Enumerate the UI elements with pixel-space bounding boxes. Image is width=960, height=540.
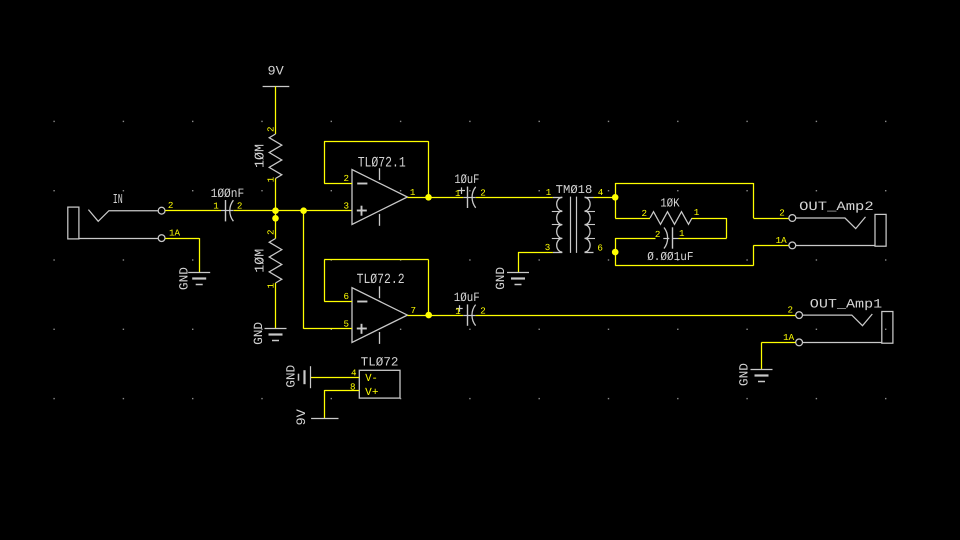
connector J OUT_Amp1 (audio jack) (796, 297, 893, 346)
pin 3 label (U1A) (344, 200, 350, 211)
wire (165, 238, 199, 273)
pin 2 label (10uF bottom) (480, 306, 486, 317)
wire (324, 259, 429, 261)
svg-text:1A: 1A (783, 332, 795, 343)
svg-text:GND: GND (737, 363, 751, 386)
wire (428, 141, 430, 197)
svg-text:2: 2 (344, 173, 350, 184)
wire (615, 218, 650, 220)
wire (615, 183, 753, 185)
svg-text:1A: 1A (169, 228, 181, 239)
svg-text:OUT_Amp1: OUT_Amp1 (810, 297, 883, 312)
node junction (U1A output) (425, 194, 432, 201)
wire (518, 252, 520, 272)
pin 2 label (U1A) (344, 173, 350, 184)
transformer TR TM018 (552, 183, 595, 253)
wire (324, 183, 352, 185)
wire (275, 86, 277, 134)
svg-text:2: 2 (655, 229, 661, 240)
ground GND (transformer primary) (494, 267, 529, 290)
svg-text:1: 1 (694, 207, 700, 218)
wire (615, 238, 617, 266)
op-amp U1B TL072.2 (352, 272, 407, 344)
node junction (U1B output) (425, 312, 432, 319)
resistor 10M (top) (253, 134, 281, 179)
svg-text:TMØ18: TMØ18 (556, 183, 593, 197)
wire (476, 197, 553, 199)
svg-text:IN: IN (113, 193, 123, 208)
pin 2 label (OUT_Amp2) (779, 208, 785, 219)
pin 2 label (IN) (168, 200, 174, 211)
connector J IN (audio jack) (68, 193, 165, 242)
svg-text:4: 4 (351, 367, 357, 378)
power symbol 9V (top) (263, 64, 290, 87)
svg-text:4: 4 (598, 187, 604, 198)
svg-text:6: 6 (344, 291, 350, 302)
pin 1 label (100nF) (213, 200, 219, 211)
wire (753, 183, 755, 218)
pin 6 label (U1B) (344, 291, 350, 302)
svg-text:2: 2 (168, 200, 174, 211)
wire (615, 238, 655, 240)
svg-text:Ø.ØØ1uF: Ø.ØØ1uF (647, 250, 693, 264)
grid dots (53, 121, 886, 400)
pin 1A label (OUT_Amp2) (776, 235, 788, 246)
pin 2 label (10K) (642, 208, 648, 219)
wire (324, 260, 326, 302)
wire (753, 218, 789, 220)
svg-text:1: 1 (679, 228, 685, 239)
pin 1 label (0.001uF) (679, 228, 685, 239)
pin 4 label (U1C) (351, 367, 357, 378)
connector J OUT_Amp2 (audio jack) (789, 199, 886, 249)
wire (692, 218, 727, 220)
wire (753, 245, 789, 247)
wire (324, 141, 326, 183)
pin 1 label (10uF top) (455, 188, 461, 199)
svg-text:2: 2 (642, 208, 648, 219)
svg-text:1: 1 (546, 187, 552, 198)
svg-text:GND: GND (252, 322, 266, 345)
ground GND (input jack) (178, 267, 211, 290)
capacitor 100nF (211, 186, 245, 222)
wire (407, 197, 463, 199)
wire (310, 377, 359, 379)
node junction (pin 6 node) (612, 249, 619, 256)
wire (303, 211, 305, 329)
wire (275, 211, 277, 239)
svg-text:2: 2 (266, 229, 277, 235)
svg-text:9V: 9V (294, 409, 309, 426)
svg-text:9V: 9V (268, 64, 285, 79)
svg-text:OUT_Amp2: OUT_Amp2 (799, 199, 874, 214)
node junction (input node) (272, 207, 279, 214)
pin 1 label (10M bottom) (266, 283, 277, 289)
node junction (pin 4 node) (612, 194, 619, 201)
pin 7 label (U1B) (410, 305, 416, 316)
node junction (below input node) (272, 215, 279, 222)
wire (615, 183, 617, 218)
pin 3 label (TM018) (545, 242, 551, 253)
svg-text:GND: GND (178, 267, 192, 290)
wire (324, 141, 428, 143)
svg-text:7: 7 (410, 305, 416, 316)
svg-text:5: 5 (344, 318, 350, 329)
pin 5 label (U1B) (344, 318, 350, 329)
svg-text:TLØ72.1: TLØ72.1 (358, 156, 406, 172)
svg-text:1: 1 (410, 187, 416, 198)
pin 2 label (100nF) (237, 200, 243, 211)
svg-text:1ØØnF: 1ØØnF (211, 186, 245, 201)
resistor 10K (650, 196, 692, 224)
wire (324, 390, 359, 392)
svg-text:GND: GND (285, 365, 299, 388)
svg-text:V+: V+ (365, 387, 378, 399)
svg-text:3: 3 (344, 200, 350, 211)
pin 1 label (TM018) (546, 187, 552, 198)
ground GND (bias divider) (252, 322, 287, 345)
pin 1 label (10uF bottom) (455, 306, 461, 317)
svg-text:TLØ72: TLØ72 (361, 355, 399, 369)
pin V+ label (365, 387, 378, 399)
svg-text:1: 1 (213, 200, 219, 211)
svg-text:3: 3 (545, 242, 551, 253)
svg-text:2: 2 (266, 127, 277, 133)
wire (679, 238, 727, 240)
pin 2 label (OUT_Amp1) (788, 305, 794, 316)
ground GND (U1C V-) (285, 365, 311, 388)
svg-text:1: 1 (455, 306, 461, 317)
op-amp power unit U1C TL072 (359, 355, 400, 398)
svg-text:1ØK: 1ØK (660, 196, 680, 210)
pin 2 label (10uF top) (480, 188, 486, 199)
svg-text:1ØM: 1ØM (253, 144, 268, 168)
pin 1 label (10M top) (266, 176, 277, 182)
op-amp U1A TL072.1 (352, 156, 407, 226)
wire (594, 197, 616, 199)
resistor 10M (bottom) (253, 239, 281, 284)
wire (165, 210, 221, 212)
pin 6 label (TM018) (597, 242, 603, 253)
svg-text:V-: V- (365, 373, 378, 385)
power symbol 9V (bottom) (294, 409, 339, 426)
pin 2 label (0.001uF) (655, 229, 661, 240)
pin 1A label (IN) (169, 228, 181, 239)
svg-text:2: 2 (480, 306, 486, 317)
node junction (to pin 5) (300, 207, 307, 214)
capacitor 10uF (top) (454, 172, 479, 208)
wire (762, 342, 796, 344)
wire (275, 283, 277, 328)
pin 1 label (10K) (694, 207, 700, 218)
wire (476, 315, 796, 317)
svg-text:TLØ72.2: TLØ72.2 (357, 272, 405, 288)
svg-text:2: 2 (237, 200, 243, 211)
capacitor 10uF (bottom) (454, 290, 480, 326)
wire (304, 328, 352, 330)
svg-text:1: 1 (455, 188, 461, 199)
svg-text:GND: GND (494, 267, 508, 290)
wire (615, 265, 753, 267)
pin 8 label (U1C) (350, 381, 356, 392)
pin V- label (365, 373, 378, 385)
svg-text:6: 6 (597, 242, 603, 253)
pin 1 label (U1A) (410, 187, 416, 198)
svg-text:1ØuF: 1ØuF (454, 290, 480, 305)
pin 2 label (10M bottom) (266, 229, 277, 235)
capacitor 0.001uF (647, 227, 693, 264)
svg-text:1ØM: 1ØM (253, 249, 268, 273)
wire (324, 301, 352, 303)
wire (407, 315, 463, 317)
wire (753, 245, 755, 265)
wire (234, 210, 352, 212)
wire (761, 342, 763, 369)
ground GND (OUT_Amp1) (737, 363, 772, 386)
svg-text:2: 2 (788, 305, 794, 316)
pin 2 label (10M top) (266, 127, 277, 133)
svg-text:2: 2 (779, 208, 785, 219)
wire (324, 390, 326, 419)
wire (275, 179, 277, 211)
pin 4 label (TM018) (598, 187, 604, 198)
wire (726, 218, 728, 238)
svg-text:1ØuF: 1ØuF (454, 172, 479, 187)
wire (518, 252, 553, 254)
pin 1A label (OUT_Amp1) (783, 332, 795, 343)
svg-text:1A: 1A (776, 235, 788, 246)
wire (428, 260, 430, 315)
